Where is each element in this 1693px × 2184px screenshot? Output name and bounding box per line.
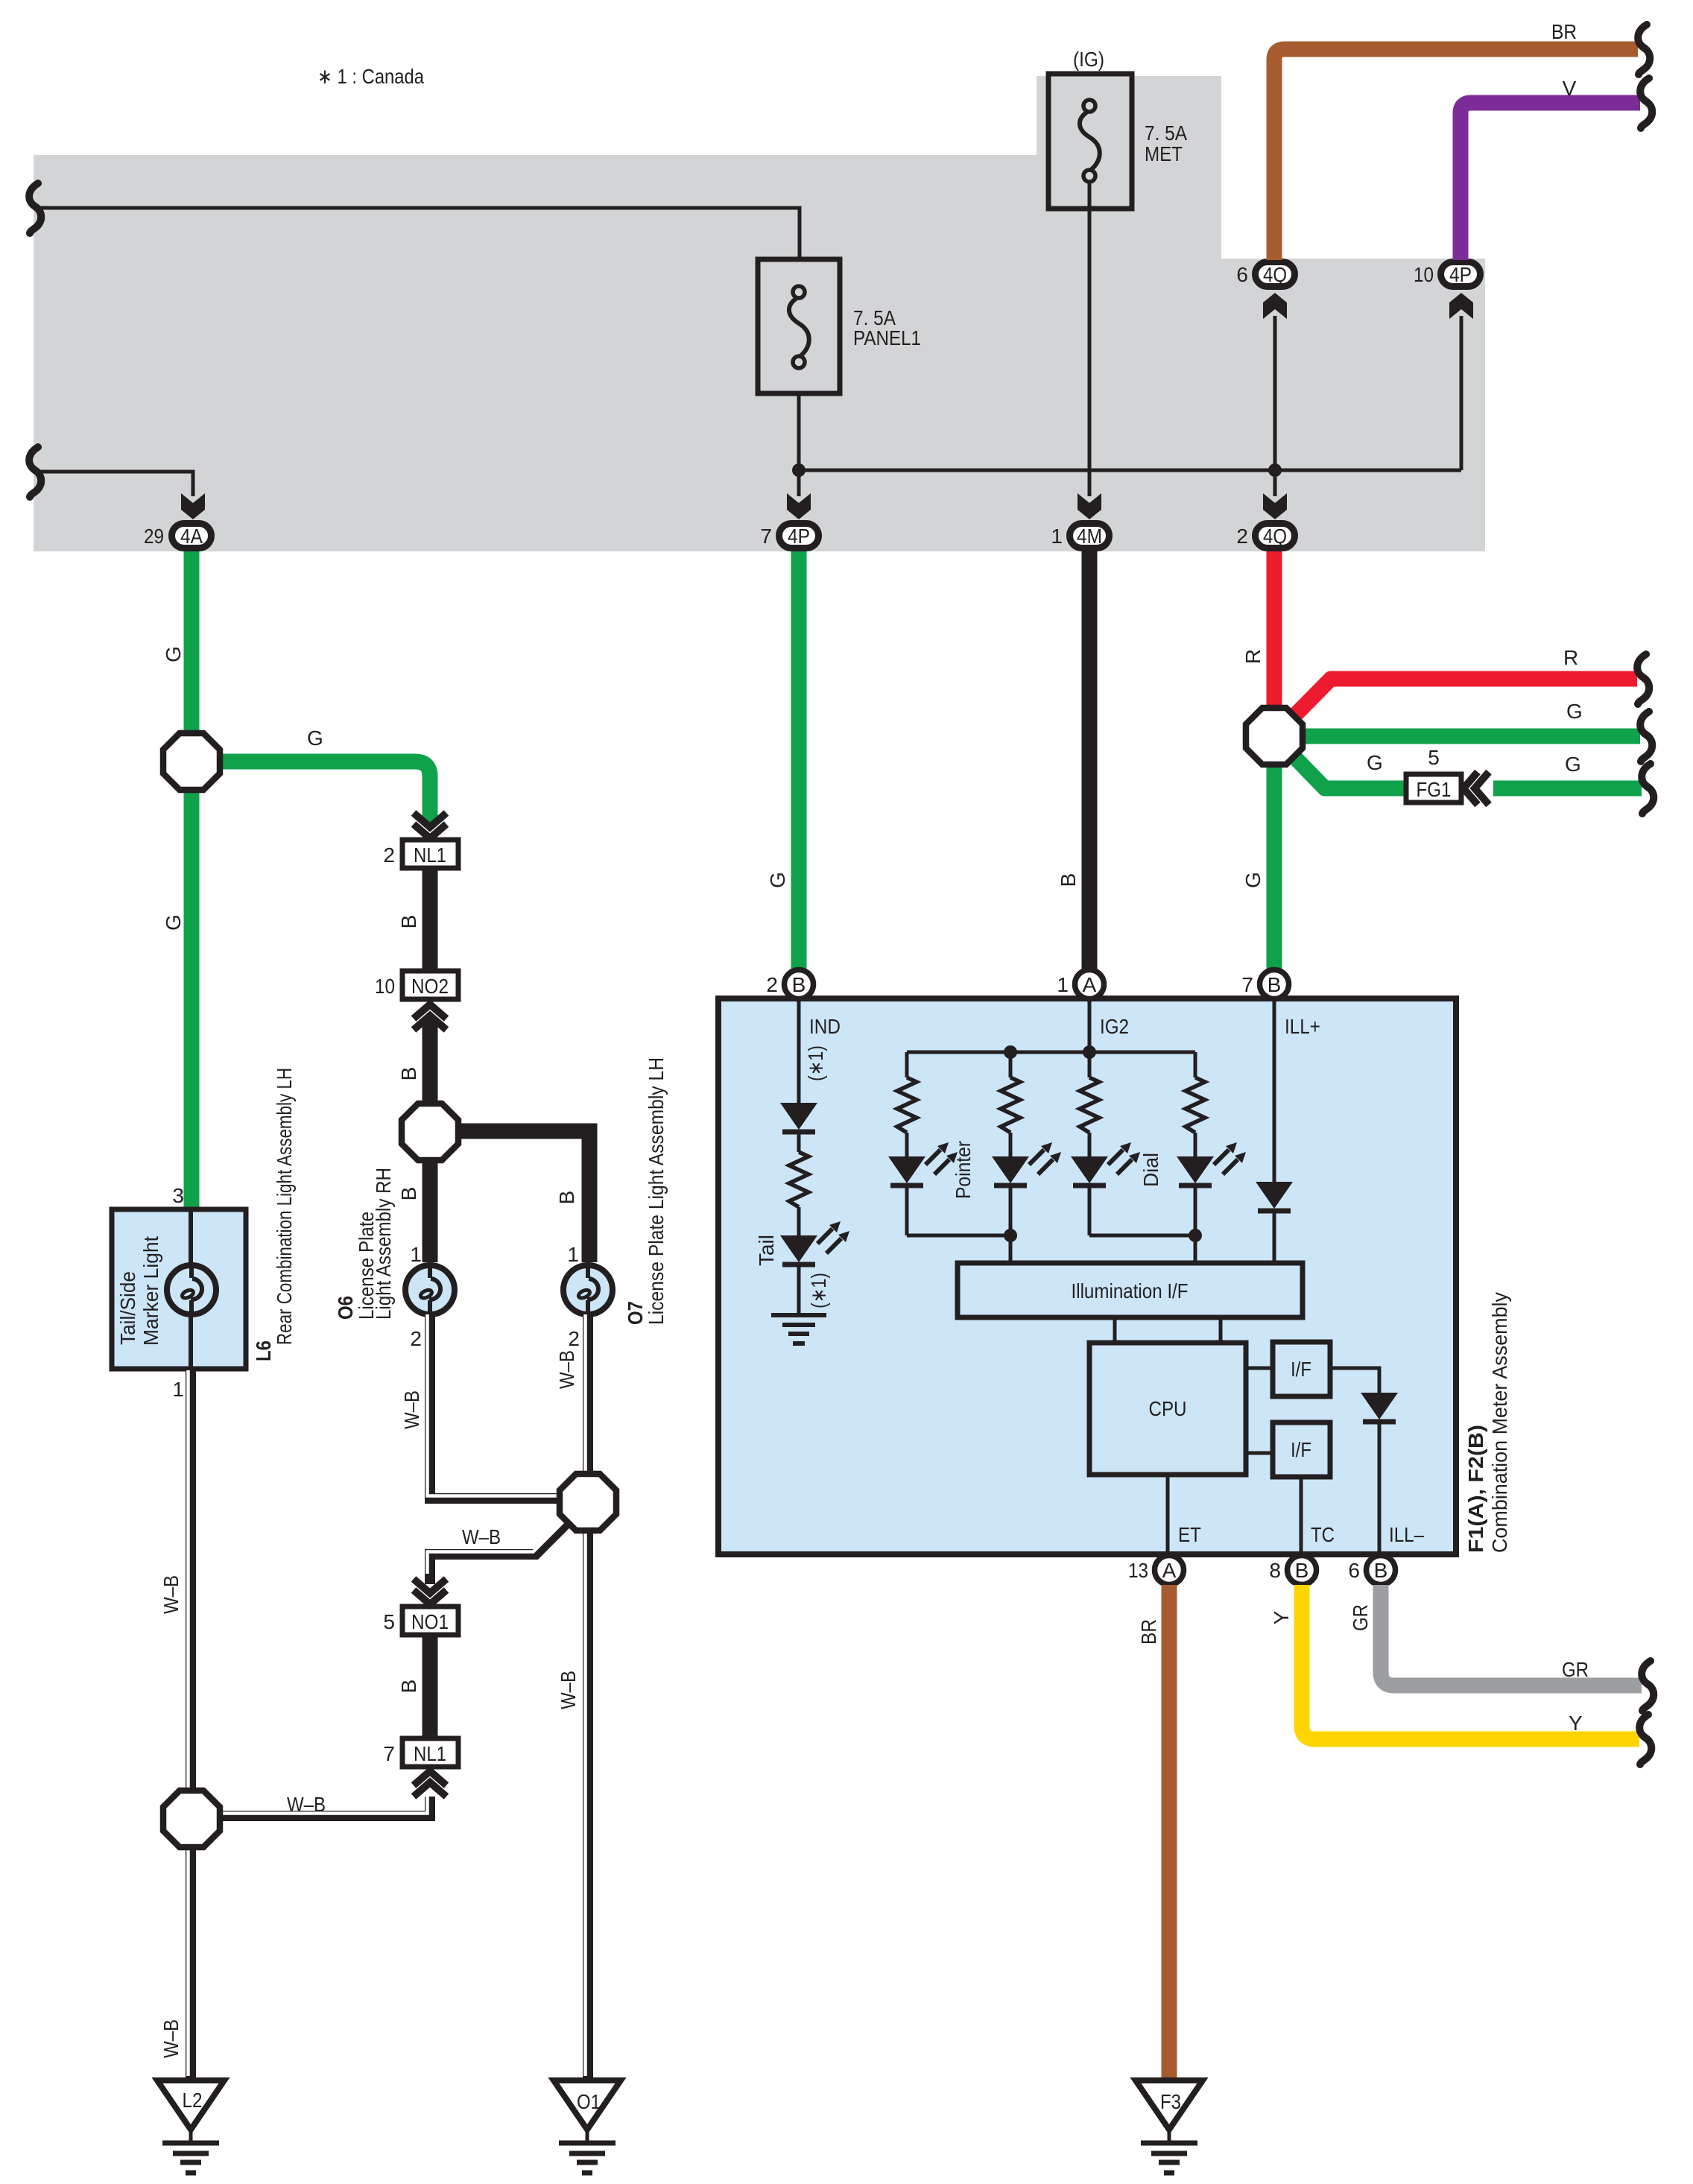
- wire G green from 7(4P) down: [791, 551, 807, 970]
- arrow into 29(4A): [181, 493, 205, 519]
- wire: [1273, 1211, 1276, 1263]
- svg-text:W–B: W–B: [555, 1350, 578, 1389]
- wire illum to CPU right: [1219, 1317, 1223, 1343]
- wire GR gray from 6(B): [1381, 1585, 1642, 1686]
- wire: fuse PANEL1 to bus: [797, 393, 801, 470]
- svg-text:G: G: [162, 914, 185, 931]
- wire R red octagon to right: [1274, 679, 1637, 736]
- svg-text:10: 10: [375, 975, 395, 998]
- svg-text:5: 5: [1428, 746, 1440, 769]
- internal ground: [771, 1315, 826, 1343]
- W-B wire octagon A to O1: [583, 1502, 593, 2077]
- svg-text:NL1: NL1: [414, 843, 446, 867]
- wire through L6: [189, 1209, 193, 1369]
- wire ILL+ inside: [1273, 999, 1276, 1182]
- wire break V: [1640, 78, 1652, 128]
- I/F box upper: [1273, 1342, 1330, 1396]
- branch 3: wire: [1088, 1052, 1092, 1077]
- wire: [1009, 1186, 1013, 1263]
- svg-text:V: V: [1563, 77, 1577, 100]
- svg-text:G: G: [766, 872, 789, 888]
- svg-text:7: 7: [383, 1742, 395, 1765]
- svg-text:3: 3: [172, 1184, 184, 1207]
- svg-text:B: B: [1268, 973, 1282, 996]
- svg-text:Illumination I/F: Illumination I/F: [1072, 1279, 1189, 1303]
- LED4: [1177, 1142, 1246, 1186]
- connector 29(4A): [144, 524, 212, 548]
- connector circle 8(B): [1269, 1556, 1316, 1585]
- svg-text:W–B: W–B: [159, 1575, 183, 1614]
- svg-text:Tail: Tail: [755, 1235, 778, 1266]
- branch 2: wire: [1009, 1052, 1013, 1077]
- wire break left bottom: [29, 447, 41, 497]
- svg-text:I/F: I/F: [1291, 1358, 1311, 1381]
- svg-text:W–B: W–B: [159, 2019, 183, 2058]
- svg-text:W–B: W–B: [400, 1390, 423, 1429]
- junction octagon middle: [402, 1104, 458, 1160]
- svg-text:IND: IND: [809, 1015, 841, 1038]
- wire G green octagon middle right: [1274, 729, 1640, 744]
- svg-text:Marker Light: Marker Light: [139, 1236, 162, 1346]
- svg-text:29: 29: [144, 525, 164, 548]
- fuse 7.5A MET: [1048, 74, 1132, 209]
- svg-text:G: G: [1241, 872, 1265, 888]
- wire: bus drop to 2(4Q): [1273, 470, 1277, 496]
- wire: [797, 1132, 801, 1152]
- LED Tail: [780, 1221, 849, 1264]
- wire: distribution bus: [799, 469, 1461, 472]
- connector circle 2(B): [766, 970, 813, 999]
- wire G green octagon to NL1: [192, 762, 430, 823]
- svg-text:O6: O6: [334, 1296, 357, 1320]
- svg-text:ILL–: ILL–: [1389, 1523, 1424, 1546]
- diode D1 IND: [780, 1103, 817, 1132]
- svg-text:7: 7: [1241, 973, 1253, 996]
- ground L2: [157, 2080, 224, 2173]
- svg-text:(∗1): (∗1): [807, 1273, 830, 1308]
- wire G green from 29(4A) down: [184, 551, 200, 762]
- svg-text:A: A: [1162, 1559, 1177, 1582]
- junction octagon B: [163, 1791, 220, 1847]
- svg-text:4Q: 4Q: [1263, 263, 1287, 286]
- diode ILL+: [1256, 1182, 1293, 1211]
- L6 tail/side marker light box: [112, 1209, 246, 1369]
- wire B black from 1(4M) down: [1082, 551, 1098, 970]
- wire IND inside: [797, 999, 801, 1103]
- wire illum to CPU left: [1113, 1317, 1117, 1343]
- W-B wire octagon A to NO1 run: [430, 1502, 588, 1584]
- node junction dot at fuse: [792, 463, 806, 477]
- arrow into 2(4Q): [1263, 493, 1287, 519]
- svg-text:BR: BR: [1551, 20, 1577, 43]
- svg-text:GR: GR: [1562, 1658, 1589, 1681]
- svg-text:B: B: [792, 973, 806, 996]
- svg-text:1: 1: [1057, 973, 1069, 996]
- svg-text:F1(A), F2(B): F1(A), F2(B): [1464, 1425, 1487, 1553]
- fuse 7.5A PANEL1: [758, 259, 840, 393]
- svg-text:B: B: [397, 1067, 420, 1081]
- svg-text:TC: TC: [1311, 1523, 1335, 1546]
- svg-text:1: 1: [172, 1378, 184, 1401]
- connector circle 7(B): [1241, 970, 1288, 999]
- svg-text:PANEL1: PANEL1: [853, 326, 921, 349]
- svg-text:G: G: [1367, 751, 1383, 774]
- svg-text:Combination Meter Assembly: Combination Meter Assembly: [1488, 1292, 1511, 1553]
- svg-text:6: 6: [1348, 1559, 1360, 1582]
- connector 6(4Q) top: [1236, 262, 1294, 287]
- bulb O7: [563, 1265, 613, 1314]
- svg-text:R: R: [1241, 649, 1265, 664]
- wire CPU to I/F upper: [1246, 1367, 1273, 1370]
- svg-text:I/F: I/F: [1291, 1438, 1311, 1461]
- svg-text:G: G: [1565, 753, 1581, 776]
- resistor R1: [897, 1077, 917, 1133]
- junction-block gray band: [34, 76, 1485, 551]
- LED1: [888, 1142, 958, 1186]
- wire break G: [1640, 712, 1652, 762]
- wire break R: [1637, 654, 1649, 704]
- connector 5(NO1): [383, 1607, 458, 1635]
- svg-text:6: 6: [1236, 263, 1248, 286]
- svg-text:B: B: [397, 1187, 420, 1201]
- CPU box: [1089, 1343, 1246, 1475]
- connector 10(NO2): [375, 971, 458, 999]
- wire Y yellow from 8(B): [1302, 1585, 1639, 1739]
- wire R red from 2(4Q) down: [1267, 551, 1282, 736]
- W-B wire L6 to octagon B: [186, 1370, 196, 1819]
- svg-text:Y: Y: [1569, 1712, 1583, 1735]
- ground O1: [554, 2080, 621, 2173]
- W-B wire NL1 bottom to octagon B: [192, 1797, 430, 1816]
- resistor R2: [1001, 1077, 1020, 1133]
- svg-text:4M: 4M: [1077, 525, 1102, 548]
- svg-text:W–B: W–B: [287, 1793, 326, 1816]
- wire CPU to I/F lower: [1246, 1452, 1273, 1455]
- wire break G2: [1642, 764, 1654, 814]
- wire: [1194, 1186, 1197, 1263]
- W-B wire O6 to octagon A: [430, 1314, 577, 1498]
- svg-text:G: G: [162, 646, 185, 662]
- svg-text:G: G: [307, 727, 323, 750]
- svg-text:B: B: [397, 915, 420, 929]
- wire: [797, 1207, 801, 1235]
- wire: [1088, 1133, 1092, 1156]
- wire B black octagon to O7: [430, 1131, 589, 1262]
- double chevron below NL1 pointing up: [414, 1771, 446, 1797]
- svg-text:1: 1: [567, 1243, 579, 1266]
- node dot: [1189, 1229, 1202, 1242]
- wire break left top: [29, 183, 41, 233]
- illumination I/F box: [958, 1263, 1303, 1317]
- LED2: [992, 1142, 1061, 1186]
- svg-text:2: 2: [1236, 525, 1248, 548]
- connector FG1: [1406, 746, 1461, 803]
- wire: [1009, 1133, 1013, 1156]
- wire G green octagon to FG1: [1274, 736, 1404, 788]
- connector 10(4P) top: [1414, 262, 1481, 287]
- svg-text:Y: Y: [1270, 1610, 1293, 1624]
- wire: bus drop to 7(4P): [797, 470, 801, 496]
- wire IG2 inside: [1088, 999, 1092, 1052]
- svg-text:NL1: NL1: [414, 1742, 446, 1765]
- wire break GR: [1642, 1661, 1654, 1711]
- wire: [1194, 1133, 1197, 1156]
- W-B wire octagon B to L2: [186, 1819, 196, 2077]
- W-B wire O7 to octagon A: [583, 1314, 593, 1502]
- wire I/F upper to diode: [1330, 1368, 1379, 1393]
- connector circle 1(A): [1057, 970, 1104, 999]
- svg-text:FG1: FG1: [1417, 778, 1452, 801]
- svg-text:1: 1: [1051, 525, 1063, 548]
- svg-text:A: A: [1083, 973, 1097, 996]
- node dot: [1083, 1045, 1096, 1059]
- svg-text:GR: GR: [1349, 1604, 1372, 1631]
- connector circle 6(B): [1348, 1556, 1395, 1585]
- double chevron into FG1: [1463, 772, 1489, 805]
- wire G green octagon down to 7(B): [1267, 736, 1282, 970]
- I/F box lower: [1273, 1422, 1330, 1477]
- svg-text:8: 8: [1269, 1559, 1281, 1582]
- wire B black NO1 to NL1: [423, 1635, 438, 1738]
- wire I/F lower to TC pin: [1300, 1477, 1303, 1554]
- wire G green below octagon to L6: [184, 762, 200, 1209]
- resistor IND: [789, 1152, 808, 1207]
- bulb L6: [167, 1265, 216, 1314]
- svg-text:B: B: [1057, 873, 1080, 887]
- arrow into 6(4Q) from below: [1263, 293, 1287, 319]
- junction octagon left: [163, 733, 220, 790]
- wire: [905, 1186, 909, 1235]
- svg-text:License Plate Light Assembly L: License Plate Light Assembly LH: [645, 1057, 668, 1325]
- svg-text:1: 1: [410, 1243, 422, 1266]
- resistor R4: [1186, 1077, 1205, 1133]
- wire: lower-left feed line to 4A: [34, 472, 193, 496]
- junction octagon right: [1246, 708, 1303, 765]
- wire B black NL1 to NO2: [423, 868, 438, 971]
- svg-text:Light Assembly RH: Light Assembly RH: [372, 1168, 395, 1320]
- wire G green right of FG1: [1493, 781, 1642, 797]
- wire BR brown from 6(4Q): [1274, 49, 1638, 260]
- svg-text:4Q: 4Q: [1263, 525, 1287, 548]
- svg-text:5: 5: [383, 1610, 395, 1633]
- wire: [797, 1264, 801, 1315]
- wire break Y: [1639, 1715, 1651, 1764]
- svg-text:BR: BR: [1137, 1619, 1160, 1645]
- double chevron below NO2 pointing up: [414, 1004, 446, 1030]
- svg-text:∗ 1 : Canada: ∗ 1 : Canada: [317, 65, 424, 88]
- svg-text:IG2: IG2: [1100, 1015, 1129, 1038]
- wire break BR: [1638, 25, 1650, 75]
- arrow into 10(4P) from below: [1449, 293, 1473, 319]
- junction octagon A: [560, 1474, 616, 1531]
- svg-text:7: 7: [760, 525, 772, 548]
- svg-text:B: B: [555, 1191, 578, 1205]
- wire: bus riser to 10(4P): [1460, 316, 1463, 470]
- svg-text:2: 2: [410, 1327, 422, 1350]
- bulb O6: [405, 1265, 455, 1314]
- branch 1: wire: [905, 1052, 909, 1077]
- connector 2(NL1): [383, 840, 458, 868]
- svg-text:ILL+: ILL+: [1285, 1015, 1320, 1038]
- wire led bottom right pair: [1089, 1234, 1195, 1238]
- wire: fuse MET down to 4M: [1088, 183, 1092, 496]
- svg-text:13: 13: [1128, 1559, 1148, 1582]
- svg-text:CPU: CPU: [1149, 1397, 1187, 1420]
- connector 2(4Q): [1236, 524, 1294, 548]
- branch 4: wire: [1194, 1052, 1197, 1077]
- wire: bus riser to 6(4Q): [1273, 316, 1277, 470]
- wire: top feed line: [34, 208, 800, 259]
- svg-text:(∗1): (∗1): [804, 1045, 827, 1081]
- svg-text:Dial: Dial: [1139, 1153, 1162, 1187]
- wire BR brown from 13(A): [1162, 1585, 1177, 2079]
- ground F3: [1136, 2080, 1203, 2173]
- combination meter assembly box: [718, 998, 1456, 1554]
- svg-text:Pointer: Pointer: [952, 1141, 975, 1199]
- svg-text:2: 2: [568, 1327, 580, 1350]
- wire: [1088, 1186, 1092, 1235]
- svg-text:4A: 4A: [180, 525, 203, 548]
- svg-text:F3: F3: [1160, 2090, 1181, 2113]
- resistor R3: [1080, 1077, 1099, 1133]
- svg-text:2: 2: [766, 973, 778, 996]
- svg-text:O7: O7: [624, 1301, 647, 1325]
- node dot: [1004, 1229, 1017, 1242]
- connector 7(NL1): [383, 1738, 458, 1767]
- svg-text:Tail/Side: Tail/Side: [116, 1271, 139, 1345]
- wire V violet from 10(4P): [1461, 103, 1640, 260]
- arrow into 1(4M): [1077, 493, 1101, 519]
- wire B black NO2 to octagon: [423, 1019, 438, 1132]
- connector 1(4M): [1051, 524, 1109, 548]
- svg-text:W–B: W–B: [557, 1671, 580, 1709]
- svg-text:B: B: [397, 1680, 420, 1694]
- svg-text:NO1: NO1: [411, 1610, 449, 1633]
- wire led bus top: [907, 1051, 1195, 1054]
- svg-text:W–B: W–B: [462, 1525, 501, 1548]
- svg-text:B: B: [1374, 1559, 1388, 1582]
- wire diode to ILL- pin: [1378, 1422, 1382, 1554]
- diode ILL-: [1361, 1393, 1398, 1422]
- svg-text:(IG): (IG): [1073, 48, 1104, 71]
- wire led bottom left pair: [907, 1234, 1010, 1238]
- connector 7(4P): [760, 524, 818, 548]
- svg-text:O1: O1: [577, 2090, 601, 2113]
- svg-text:G: G: [1566, 700, 1583, 723]
- svg-text:MET: MET: [1145, 142, 1183, 165]
- svg-text:L6: L6: [252, 1341, 275, 1361]
- connector circle 13(A): [1128, 1556, 1184, 1585]
- svg-text:7. 5A: 7. 5A: [1145, 121, 1187, 145]
- svg-text:B: B: [1295, 1559, 1309, 1582]
- svg-text:10: 10: [1414, 263, 1434, 286]
- node junction dot at 4Q column: [1268, 463, 1282, 477]
- svg-text:Rear Combination Light Assembl: Rear Combination Light Assembly LH: [273, 1068, 296, 1345]
- svg-text:2: 2: [383, 843, 395, 867]
- wire B black octagon down to O6: [423, 1132, 438, 1262]
- LED3: [1071, 1142, 1140, 1186]
- node dot: [1004, 1045, 1017, 1059]
- arrow into 7(4P): [787, 493, 811, 519]
- svg-text:4P: 4P: [1449, 263, 1472, 286]
- white cores of W-B wires: [189, 1314, 586, 2076]
- double chevron into NO1: [414, 1579, 446, 1604]
- double chevron into NL1 top: [414, 813, 446, 838]
- svg-text:R: R: [1563, 646, 1578, 669]
- wire: [905, 1133, 909, 1156]
- wire CPU to ET pin: [1166, 1475, 1170, 1554]
- svg-text:ET: ET: [1178, 1523, 1201, 1546]
- svg-text:NO2: NO2: [411, 975, 449, 998]
- svg-text:L2: L2: [183, 2089, 203, 2112]
- svg-text:4P: 4P: [788, 525, 810, 548]
